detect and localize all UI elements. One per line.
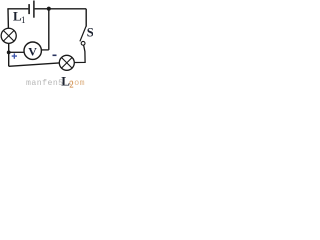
svg-text:1: 1 [21,15,26,25]
switch S blade [80,26,86,41]
wire from battery to junction dot [35,8,49,10]
wire bottom slanted from lamp L2 to bottom-left corner [9,63,60,66]
node junction dot top [47,7,51,11]
battery B1 long (positive) plate [33,1,35,18]
node junction dot left [7,51,11,55]
lamp L2 circle [59,55,74,70]
wire from switch down to corner and into lamp L2 right side [74,45,85,62]
label plus [12,53,17,58]
switch S hinge circle [81,41,85,45]
wire from left dot up to lamp L1 bottom [8,43,10,52]
wire from voltmeter right to middle riser [41,49,48,51]
wire top right to corner [49,8,86,10]
wire top from top-left corner to battery negative plate [7,8,28,10]
label minus [53,54,57,56]
battery B1 short (negative) plate [28,4,30,14]
wire right vertical down to switch [85,9,87,27]
wire from lamp L1 top to top-left corner [6,9,9,28]
svg-text:S: S [87,25,93,39]
lamp L1 cross [3,31,14,42]
svg-text:V: V [28,45,37,59]
wire left vertical from bottom corner up to left junction dot [8,52,10,66]
lamp L1 circle [1,28,16,43]
voltmeter V circle [24,42,41,59]
svg-text:manfen5.com: manfen5.com [26,78,85,88]
lamp L2 cross [62,58,73,69]
wire middle riser from voltmeter wire up to junction dot [48,9,50,50]
wire from left dot to voltmeter plus terminal [9,51,25,53]
